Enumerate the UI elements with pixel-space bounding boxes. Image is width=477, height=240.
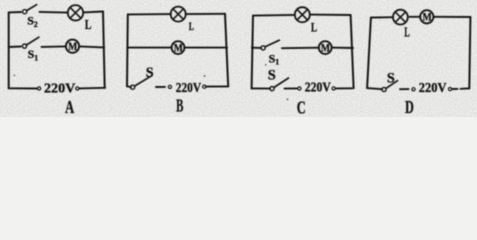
wire: C middle rail left segment [252, 47, 261, 49]
wire: B bottom rail left segment [127, 85, 131, 88]
wire: A middle rail right segment [79, 46, 104, 47]
wire: dash before terminal (B) [156, 86, 165, 88]
svg-text:S: S [146, 65, 154, 81]
svg-text:M: M [68, 41, 77, 53]
wire: D bottom rail left segment [367, 88, 382, 89]
wire: A bottom rail left segment [9, 87, 38, 89]
label S of D [387, 71, 395, 87]
svg-text:A: A [65, 97, 74, 117]
svg-text:1: 1 [275, 58, 279, 67]
switch S1 hinge [22, 44, 26, 48]
svg-text:1: 1 [34, 54, 38, 63]
wire: B middle rail right segment [184, 47, 227, 49]
wire: C middle rail right segment [332, 47, 353, 49]
wire: A bottom rail right segment [79, 87, 105, 90]
label B [176, 96, 183, 116]
wire: B top rail left segment [128, 13, 171, 15]
speckle [265, 64, 267, 66]
switch S2 hinge [23, 10, 27, 14]
svg-text:C: C [297, 98, 306, 117]
label 220V (B) [176, 80, 201, 95]
wire: D top rail right segment [433, 16, 470, 18]
switch S hinge (B) [131, 85, 135, 89]
switch S1 blade [26, 37, 39, 45]
wire: C right vertical [351, 15, 354, 88]
label 220V (A) [44, 80, 75, 95]
wire: dash before terminal (D) [400, 88, 409, 90]
switch S blade (D) [386, 81, 398, 89]
motor M of D [420, 10, 433, 23]
lamp L of B [171, 7, 186, 22]
wire: dashes after terminal (D) [453, 88, 458, 90]
switch S2 blade [27, 5, 37, 11]
svg-text:L: L [85, 17, 92, 32]
label 220V (D) [419, 80, 447, 95]
switch S1 hinge (C) [261, 46, 265, 50]
svg-text:220V: 220V [305, 79, 331, 94]
switch S hinge (C) [270, 87, 274, 91]
wire: D left vertical [367, 18, 371, 89]
speckle [287, 98, 289, 100]
label S1 [28, 47, 39, 62]
label L of C [311, 20, 317, 34]
lamp L of D [393, 10, 408, 25]
label S of B [146, 65, 154, 81]
node: junction on C left vertical [251, 46, 254, 49]
wire: B bottom rail right segment [206, 85, 228, 87]
svg-text:D: D [405, 97, 414, 117]
wire: B middle rail left segment [127, 47, 171, 49]
label A [65, 97, 74, 117]
label C [297, 98, 306, 118]
label L of A [85, 17, 92, 32]
svg-text:L: L [189, 19, 194, 33]
battery terminal right (B) [203, 85, 206, 88]
svg-text:S: S [268, 67, 276, 83]
label 220V (C) [305, 79, 331, 94]
switch S hinge (D) [382, 87, 386, 91]
wire: A middle rail left segment [9, 46, 21, 49]
svg-text:M: M [174, 42, 183, 54]
speckle [14, 75, 16, 77]
battery terminal right (C) [332, 87, 335, 90]
wire: A top rail left segment [9, 11, 21, 13]
wire: A right vertical [103, 12, 105, 88]
wire: dash between lamp and motor (D) [410, 16, 421, 18]
wire: A middle rail middle segment [42, 45, 66, 48]
label L of D [404, 25, 410, 40]
lamp L of A [68, 5, 83, 20]
label S of C [268, 67, 276, 83]
wire: B right vertical [225, 14, 228, 87]
battery terminal left (C) [298, 87, 301, 90]
wire: A top rail middle segment [40, 11, 68, 14]
motor M of C [319, 41, 332, 54]
wire: C top rail left segment [253, 14, 295, 17]
svg-text:2: 2 [34, 20, 38, 29]
wire: A left vertical [8, 12, 10, 88]
svg-text:S: S [387, 71, 395, 87]
motor M of A [66, 40, 79, 53]
wire: C bottom rail right segment [335, 87, 352, 89]
wire: B left vertical [126, 14, 129, 86]
wire: D top rail left segment [371, 16, 393, 18]
speckle [204, 75, 206, 77]
battery terminal right (D) [448, 88, 451, 91]
wire: C top rail right segment [310, 14, 351, 16]
lamp L of C [295, 7, 310, 22]
svg-text:220V: 220V [44, 80, 75, 95]
svg-text:B: B [176, 96, 183, 116]
wire: C middle rail middle segment [282, 47, 319, 50]
label L of B [189, 19, 194, 33]
switch S blade (B) [135, 76, 152, 86]
battery terminal left (B) [168, 85, 171, 88]
label S1 of C [269, 51, 280, 66]
motor M of B [172, 41, 185, 54]
label D [405, 97, 414, 117]
wire: dash before terminal (C) [285, 87, 298, 89]
wire: A top rail right segment [83, 11, 103, 14]
switch S blade (C) [274, 78, 289, 88]
switch S1 blade (C) [265, 40, 279, 47]
battery terminal right (A) [76, 87, 79, 90]
svg-text:M: M [321, 42, 330, 54]
wire: C bottom rail left segment [252, 87, 270, 89]
svg-text:220V: 220V [176, 80, 201, 95]
wire: B top rail right segment [186, 13, 225, 15]
wire: D right vertical [469, 17, 470, 88]
label S2 [27, 14, 38, 30]
svg-text:M: M [423, 12, 432, 24]
wire: C left vertical [252, 16, 253, 89]
svg-text:220V: 220V [419, 80, 447, 95]
battery terminal left (A) [38, 87, 41, 90]
svg-text:L: L [404, 25, 410, 40]
svg-text:L: L [311, 20, 317, 34]
battery terminal left (D) [412, 88, 415, 91]
